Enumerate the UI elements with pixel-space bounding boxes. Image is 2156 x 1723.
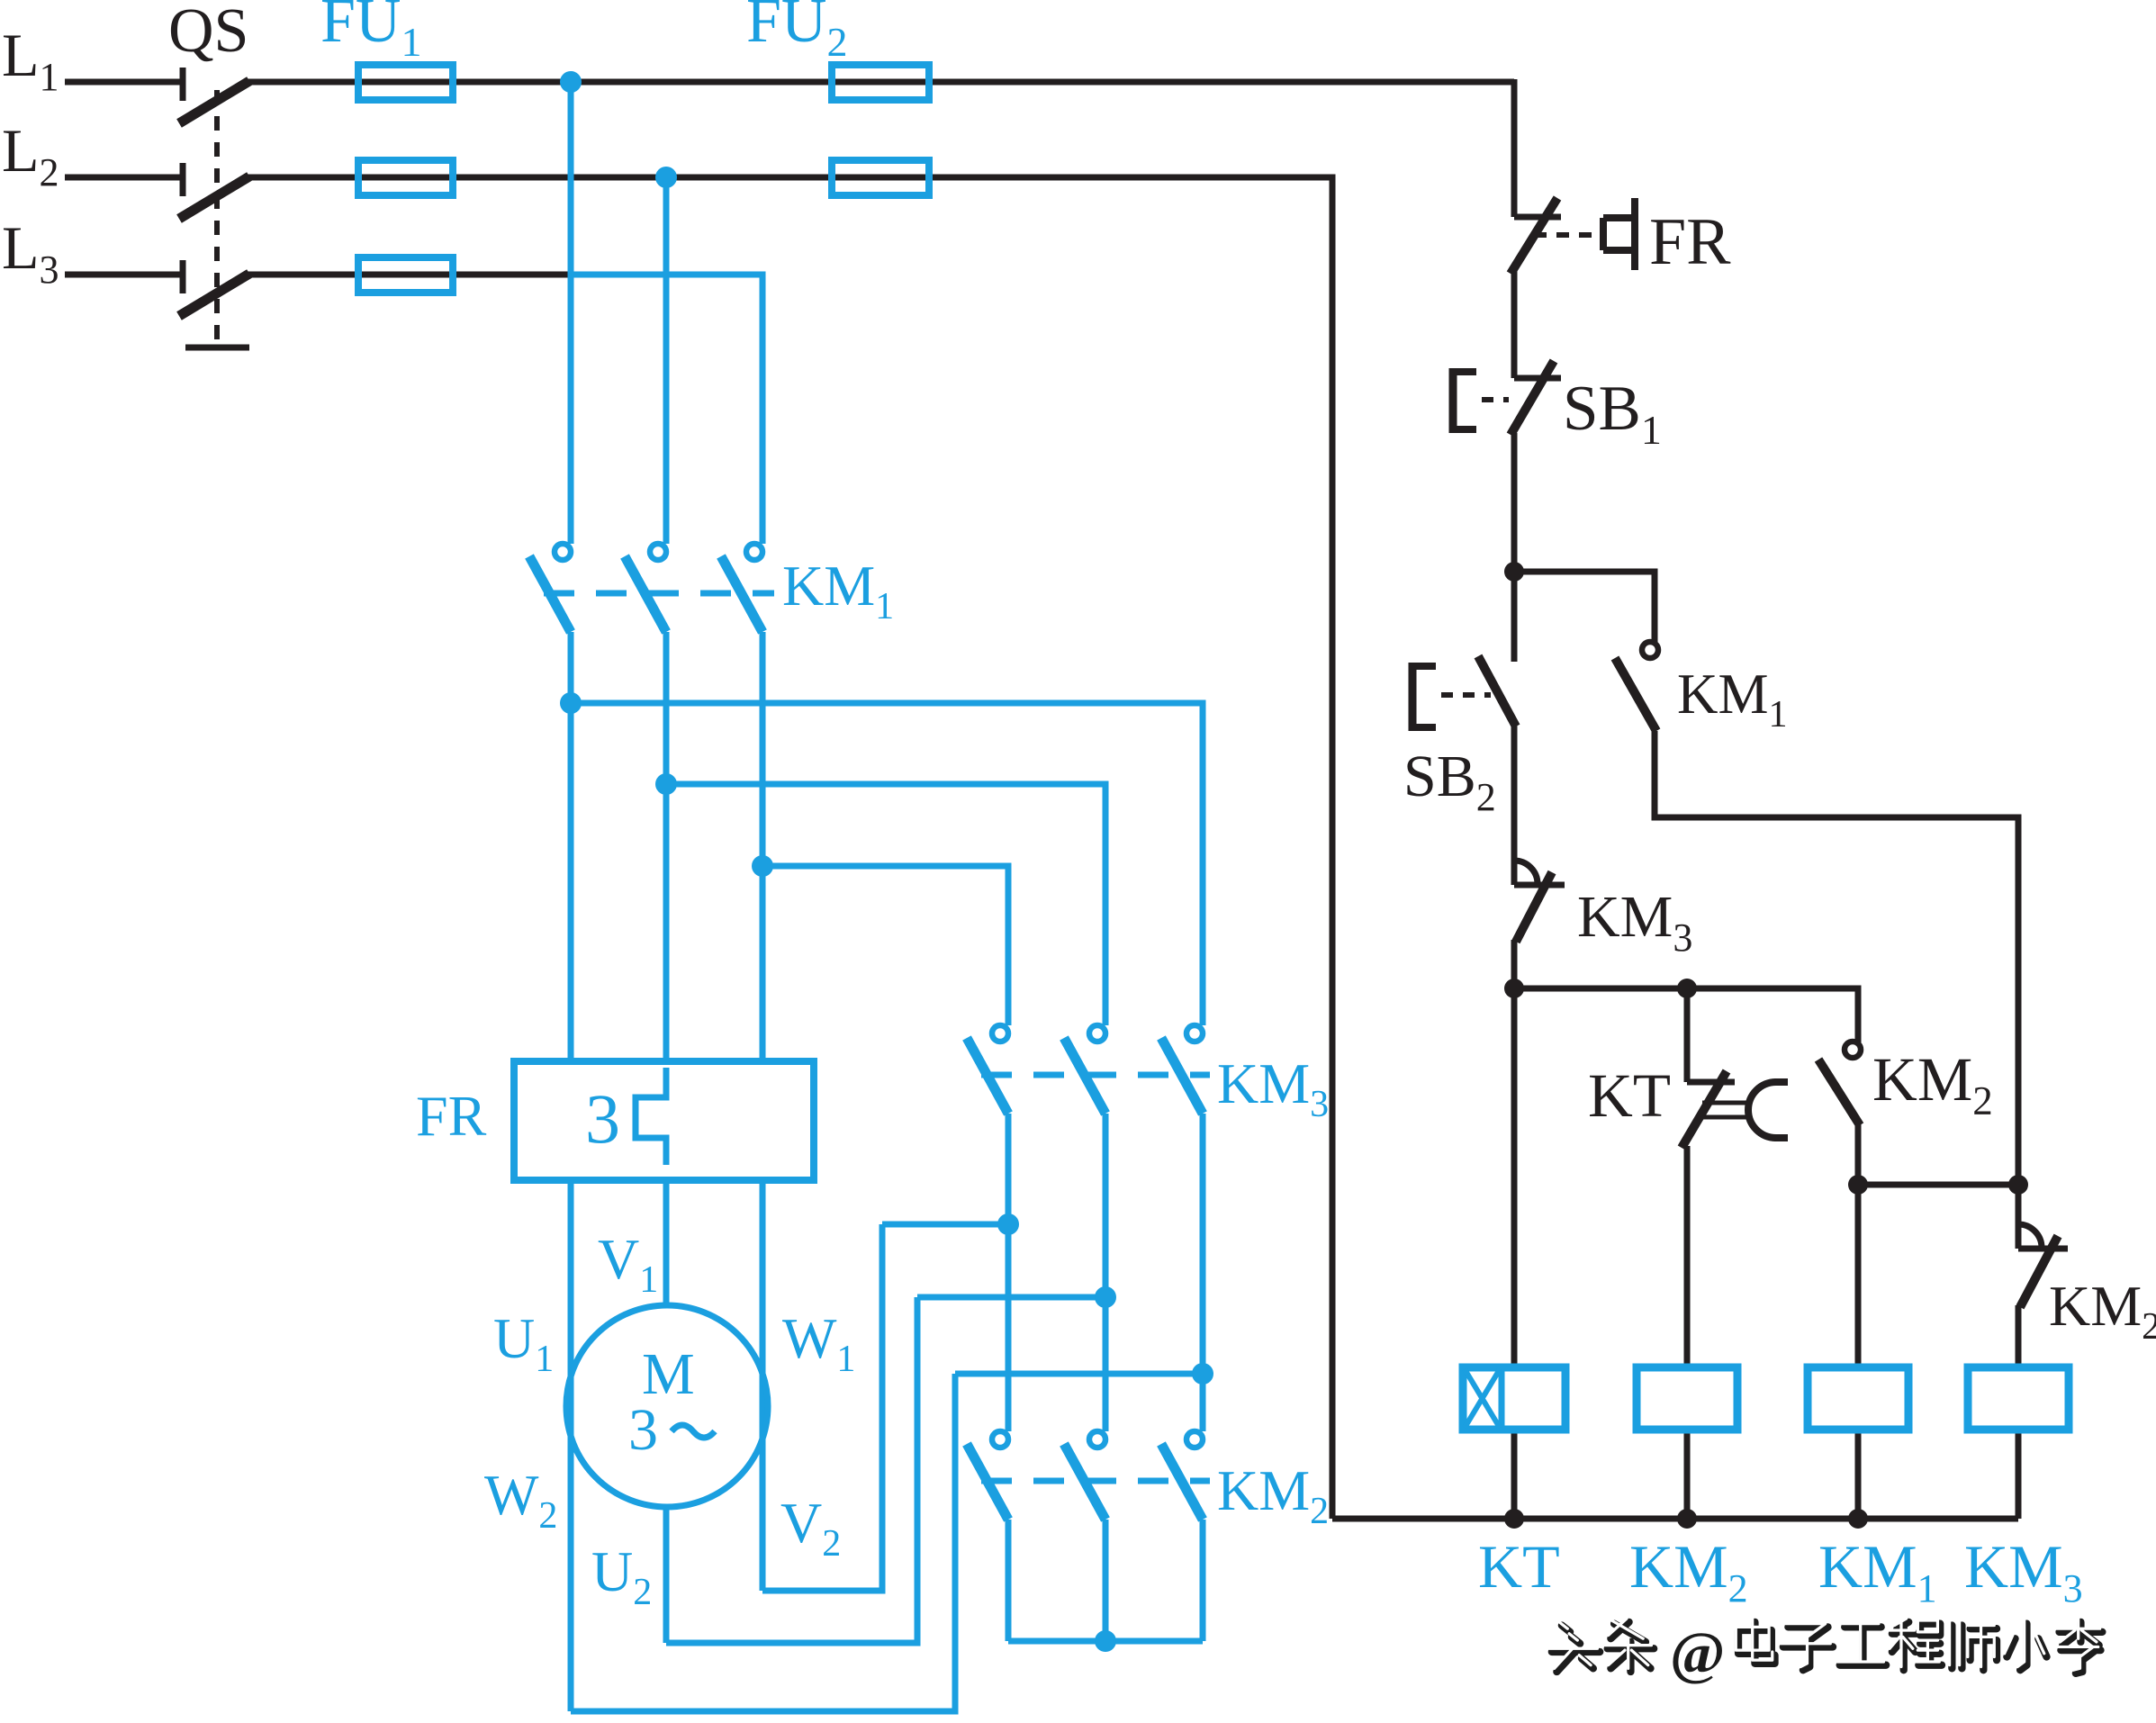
contact KM1 aux NO [1615, 642, 1658, 731]
contactor KM2 main pole 1 [967, 1431, 1008, 1520]
coil KM3 label [1964, 1532, 2083, 1610]
contact KM2 aux NO [1818, 1042, 1861, 1125]
wire L3 blue jog [571, 275, 762, 544]
relay contact FR NC [1511, 198, 1561, 274]
coil KM3 box [1968, 1367, 2069, 1430]
contact KM1 aux label [1677, 663, 1788, 735]
wire L1 corner drop [1511, 79, 1518, 217]
pushbutton SB1 NC [1511, 361, 1561, 435]
wire crossover 3 [762, 866, 1008, 1025]
wire KT coil bottom [1511, 1430, 1518, 1519]
wire FR to SB1 [1511, 270, 1518, 378]
thermal relay FR label [416, 1084, 487, 1148]
wire pole1 bottom [1006, 1520, 1012, 1641]
contactor KM3 main pole 3 [1161, 1025, 1203, 1114]
wire KM1 aux to node D [1655, 731, 2018, 1249]
terminal label V1 [598, 1227, 658, 1301]
junction dot A1 [560, 692, 582, 714]
node L3 label [2, 213, 59, 292]
fuse FU1 pole 2 [358, 160, 453, 195]
pushbutton SB1 actuator [1450, 368, 1476, 433]
contact KT delayed NC [1682, 1071, 1788, 1148]
wire U1 to motor [568, 1180, 574, 1711]
contact KM3 aux NC [1514, 861, 1565, 942]
wire crossover 2 [666, 784, 1105, 1025]
wire branch to KM1 aux [1514, 572, 1655, 642]
watermark toutiao [1549, 1619, 2102, 1686]
switch QS pole 2 [179, 163, 249, 219]
svg-text:3: 3 [628, 1397, 658, 1463]
junction dot B3 [1192, 1363, 1213, 1385]
wire KM2 coil bottom [1684, 1430, 1691, 1519]
contactor KM2 main pole 2 [1064, 1431, 1105, 1520]
junction dot bus1 [1504, 1509, 1524, 1529]
wire pole1 mid [1006, 1114, 1012, 1431]
fuse FU2 label [746, 0, 847, 65]
contactor KM2 linkage dashed [981, 1478, 1210, 1484]
junction dot bus3 [1848, 1509, 1868, 1529]
wire SB1 to node C [1511, 433, 1518, 662]
wire L2 left segment [65, 175, 181, 181]
wire KT contact to KM2 coil [1684, 1146, 1691, 1367]
motor M letter [642, 1341, 695, 1407]
thermal relay FR value 3 [585, 1079, 620, 1158]
motor tilde [672, 1425, 715, 1438]
terminal label V2 [780, 1491, 841, 1565]
wire W2 u-turn [571, 1374, 955, 1711]
contact KM2 aux NO label [1872, 1045, 1993, 1123]
contactor KM1 main pole 2 [625, 544, 666, 632]
wire V2 u-turn [762, 1224, 882, 1591]
switch QS pole 1 [179, 68, 249, 123]
wire KM1 coil bottom [1855, 1430, 1862, 1519]
wire bottom bus [1332, 1516, 2018, 1522]
contactor KM3 main pole 2 [1064, 1025, 1105, 1114]
wire pole3 bottom [1200, 1520, 1206, 1641]
wire pole1 lower [568, 632, 574, 1063]
wire bridge W2 to pole3 [955, 1371, 1203, 1377]
junction dot L2 [655, 167, 677, 188]
wire SB2 to KM3 aux [1511, 725, 1518, 885]
wire L3 left segment [65, 272, 181, 278]
svg-text:FR: FR [1649, 205, 1731, 279]
wire KM2 aux to node G [1855, 1123, 1862, 1367]
fuse FU2 pole 2 [832, 160, 929, 195]
coil KM1 label [1818, 1532, 1937, 1610]
thermal relay FR heater box [514, 1061, 814, 1180]
wire G to H [1858, 1182, 2018, 1188]
wire W1 to motor [760, 1180, 766, 1591]
switch QS pole 3 [179, 260, 249, 316]
svg-text:KM2: KM2 [2049, 1274, 2156, 1348]
wire bridge V2 to pole1 [882, 1222, 1008, 1228]
wire bridge U2 to pole2 [917, 1295, 1105, 1301]
wire KM3 aux to node E [1511, 940, 1518, 988]
terminal label U1 [493, 1306, 554, 1380]
relay FR trip hook [1603, 198, 1635, 270]
junction dot G [1848, 1175, 1868, 1195]
junction dot C [1504, 562, 1524, 582]
wire V1 to motor [663, 1180, 670, 1307]
relay contact FR label [1649, 205, 1731, 279]
contactor KM1 main pole 1 [529, 544, 571, 632]
wire pole3 lower [760, 632, 766, 1063]
junction dot B1 [997, 1213, 1019, 1235]
junction dot B2 [1095, 1286, 1116, 1308]
fuse FU1 pole 3 [358, 257, 453, 293]
svg-text:KT: KT [1478, 1532, 1560, 1601]
node L2 label [2, 116, 59, 194]
pushbutton SB1 dashed [1482, 397, 1509, 402]
coil KM2 box [1637, 1367, 1737, 1430]
junction dot L1 [560, 71, 582, 93]
motor 3-phase mark [628, 1397, 658, 1463]
wire pole2 lower [663, 632, 670, 1063]
contactor KM1 main label [782, 554, 894, 627]
junction dot A3 [752, 855, 773, 877]
contact KM3 aux label [1577, 884, 1692, 960]
coil KT box [1463, 1367, 1565, 1430]
wire pole2 mid [1103, 1114, 1109, 1431]
junction dot star [1095, 1630, 1116, 1652]
contactor KM3 main pole 1 [967, 1025, 1008, 1114]
wire L2 to right corner [247, 175, 1332, 181]
coil KM1 box [1808, 1367, 1908, 1430]
contact KM2 aux NC [2018, 1224, 2068, 1307]
wire L2 control drop [1330, 177, 1332, 1519]
wire F to KT contact [1684, 988, 1691, 1082]
wire L1 left segment [65, 79, 181, 86]
fuse FU1 pole 1 [358, 65, 453, 100]
pushbutton SB2 dashed [1441, 692, 1491, 698]
fuse FU2 pole 1 [832, 65, 929, 100]
contactor KM3 main label [1217, 1051, 1329, 1125]
coil KM2 label [1629, 1532, 1748, 1610]
wire pole2 bottom [1103, 1520, 1109, 1641]
coil KT label [1478, 1532, 1560, 1601]
contactor KM2 main pole 3 [1161, 1431, 1203, 1520]
junction dot H [2008, 1175, 2028, 1195]
svg-text:@: @ [1670, 1620, 1725, 1686]
terminal label W1 [782, 1306, 855, 1380]
wire pole3 mid [1200, 1114, 1206, 1431]
pushbutton SB1 label [1563, 374, 1662, 453]
switch QS linkage dashed [214, 90, 220, 346]
wire phase V drop [663, 177, 670, 544]
pushbutton SB2 NO [1478, 656, 1516, 726]
junction dot bus2 [1677, 1509, 1697, 1529]
motor M circle [566, 1305, 768, 1507]
wire L1 to right corner [247, 79, 1514, 86]
svg-text:QS: QS [168, 0, 248, 66]
wire L3 black segment [247, 272, 573, 278]
contactor KM3 linkage dashed [981, 1072, 1210, 1078]
terminal label U2 [591, 1539, 652, 1613]
wire phase U drop [568, 82, 574, 544]
pushbutton SB2 label [1403, 744, 1496, 819]
svg-text:FR: FR [416, 1084, 487, 1148]
junction dot F [1677, 979, 1697, 998]
junction dot E [1504, 979, 1524, 998]
junction dot A2 [655, 773, 677, 795]
contactor KM1 main pole 3 [721, 544, 762, 632]
wire crossover 1 [571, 703, 1203, 1025]
wire node E rail [1514, 988, 1858, 1042]
fuse FU1 label [320, 0, 421, 65]
relay FR trip dashed [1534, 232, 1601, 238]
wire KM2 NC to KM3 coil [2016, 1305, 2022, 1367]
node L1 label [2, 21, 59, 99]
contact KT label [1588, 1061, 1671, 1130]
contactor KM1 linkage dashed [544, 591, 774, 597]
wire KM2 star bus [1008, 1638, 1203, 1645]
wire KM3 coil bottom [2016, 1430, 2022, 1519]
svg-text:3: 3 [585, 1079, 620, 1158]
svg-text:KT: KT [1588, 1061, 1671, 1130]
wire E to KT coil [1511, 988, 1518, 1367]
contact KM2 aux NC label [2049, 1274, 2156, 1348]
terminal label W2 [484, 1463, 557, 1537]
thermal relay FR heater element [636, 1068, 666, 1165]
pushbutton SB2 actuator [1410, 663, 1436, 731]
switch QS label [168, 0, 248, 66]
wire U2 u-turn [666, 1297, 917, 1643]
switch QS handle bar [185, 345, 249, 351]
contactor KM2 main label [1217, 1458, 1329, 1532]
